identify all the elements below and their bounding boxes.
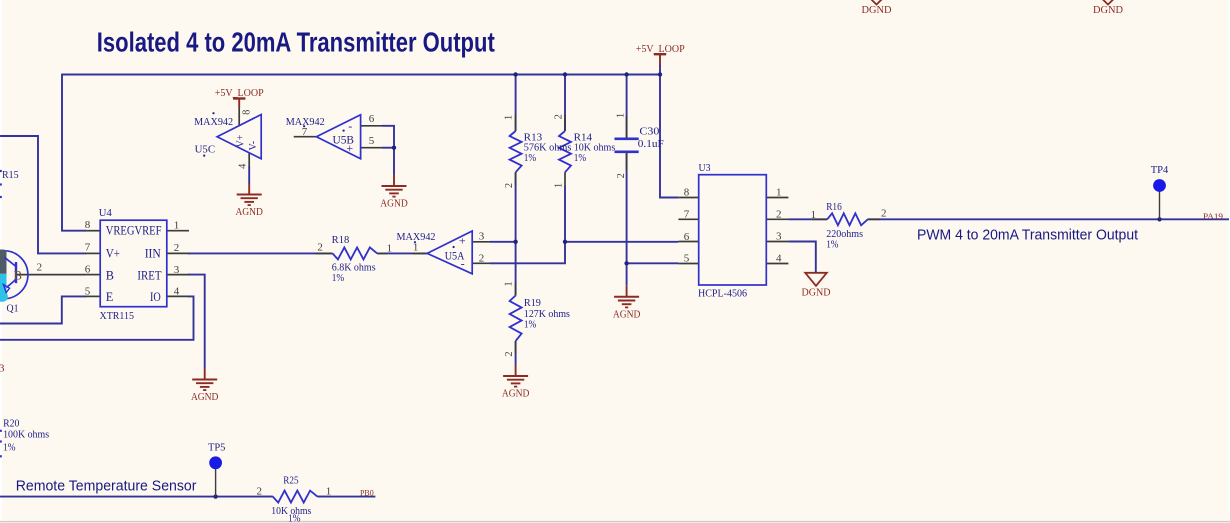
svg-text:IIN: IIN xyxy=(145,247,161,261)
svg-text:R19: R19 xyxy=(524,298,541,309)
svg-text:B: B xyxy=(14,269,22,283)
svg-text:PB0: PB0 xyxy=(360,488,374,497)
svg-text:DGND: DGND xyxy=(862,5,892,16)
svg-text:2: 2 xyxy=(174,242,180,254)
svg-text:TP4: TP4 xyxy=(1151,165,1169,176)
svg-text:4: 4 xyxy=(776,252,782,264)
svg-text:6.8K ohms: 6.8K ohms xyxy=(332,262,376,273)
svg-text:0.1uF: 0.1uF xyxy=(638,139,664,150)
svg-text:2: 2 xyxy=(504,183,515,188)
svg-text:8: 8 xyxy=(85,219,91,231)
svg-text:2: 2 xyxy=(616,173,627,178)
svg-text:TP5: TP5 xyxy=(208,442,226,453)
svg-text:V-: V- xyxy=(248,141,259,151)
svg-text:Isolated 4 to 20mA Transmitter: Isolated 4 to 20mA Transmitter Output xyxy=(97,27,495,58)
svg-text:U5C: U5C xyxy=(195,145,216,156)
svg-text:6: 6 xyxy=(369,113,375,125)
svg-text:-: - xyxy=(461,257,465,271)
svg-text:5: 5 xyxy=(85,285,91,297)
svg-text:3: 3 xyxy=(776,231,782,243)
svg-text:1: 1 xyxy=(503,115,514,120)
svg-text:AGND: AGND xyxy=(613,309,641,320)
svg-text:V+: V+ xyxy=(236,134,247,147)
svg-text:DGND: DGND xyxy=(1093,5,1123,16)
svg-text:7: 7 xyxy=(85,242,91,254)
svg-text:1%: 1% xyxy=(332,273,345,284)
svg-text:1: 1 xyxy=(413,242,419,254)
svg-text:7: 7 xyxy=(684,209,690,221)
svg-text:E: E xyxy=(106,290,114,304)
svg-text:1%: 1% xyxy=(574,153,587,164)
svg-text:XTR115: XTR115 xyxy=(100,311,135,322)
svg-text:8: 8 xyxy=(241,110,252,115)
svg-text:R18: R18 xyxy=(332,235,350,246)
svg-text:2: 2 xyxy=(317,242,323,254)
svg-text:6: 6 xyxy=(85,264,91,276)
svg-text:1: 1 xyxy=(503,281,514,286)
svg-text:1%: 1% xyxy=(3,442,16,453)
svg-text:8: 8 xyxy=(684,187,690,199)
svg-text:2: 2 xyxy=(553,114,564,119)
svg-text:2: 2 xyxy=(776,208,782,220)
svg-text:HCPL-4506: HCPL-4506 xyxy=(698,288,747,299)
svg-text:R15: R15 xyxy=(2,170,19,181)
svg-text:R20: R20 xyxy=(3,419,19,430)
svg-text:+5V_LOOP: +5V_LOOP xyxy=(215,88,264,99)
svg-text:1: 1 xyxy=(387,243,393,255)
svg-text:7: 7 xyxy=(302,126,308,138)
svg-text:1: 1 xyxy=(811,209,817,221)
svg-text:R16: R16 xyxy=(826,202,842,213)
svg-text:DGND: DGND xyxy=(802,288,831,299)
svg-text:2: 2 xyxy=(37,262,43,274)
svg-text:1%: 1% xyxy=(524,320,537,331)
svg-text:AGND: AGND xyxy=(502,389,530,400)
svg-text:AGND: AGND xyxy=(235,207,263,218)
svg-text:Q1: Q1 xyxy=(7,303,19,314)
svg-text:3: 3 xyxy=(0,362,5,374)
svg-text:IO: IO xyxy=(150,290,161,304)
svg-text:PA19: PA19 xyxy=(1203,212,1223,221)
svg-text:6: 6 xyxy=(684,231,690,243)
svg-text:U4: U4 xyxy=(99,208,113,219)
svg-text:1%: 1% xyxy=(288,513,301,523)
svg-text:PWM 4 to 20mA Transmitter Outp: PWM 4 to 20mA Transmitter Output xyxy=(917,227,1138,243)
svg-text:2: 2 xyxy=(479,252,485,264)
svg-text:1: 1 xyxy=(615,113,626,118)
svg-text:4: 4 xyxy=(174,286,180,298)
svg-text:1: 1 xyxy=(326,485,332,497)
svg-text:B: B xyxy=(106,268,114,282)
svg-text:4: 4 xyxy=(237,163,248,169)
svg-text:100K ohms: 100K ohms xyxy=(3,430,49,441)
svg-text:Remote Temperature Sensor: Remote Temperature Sensor xyxy=(16,478,197,494)
svg-text:1: 1 xyxy=(174,220,180,232)
svg-text:2: 2 xyxy=(257,485,263,497)
svg-text:1: 1 xyxy=(776,187,782,199)
svg-text:3: 3 xyxy=(174,264,180,276)
svg-text:+: + xyxy=(346,141,353,155)
svg-text:5: 5 xyxy=(369,135,375,147)
svg-text:3: 3 xyxy=(479,231,485,243)
svg-text:-: - xyxy=(348,119,352,133)
svg-text:1%: 1% xyxy=(826,239,839,250)
svg-text:IRET: IRET xyxy=(137,268,162,282)
svg-text:+5V_LOOP: +5V_LOOP xyxy=(636,44,685,55)
svg-text:R25: R25 xyxy=(283,475,298,486)
svg-text:MAX942: MAX942 xyxy=(194,117,233,128)
svg-text:V+: V+ xyxy=(106,247,120,261)
svg-text:127K ohms: 127K ohms xyxy=(524,309,570,320)
svg-text:1: 1 xyxy=(553,183,564,188)
svg-text:AGND: AGND xyxy=(380,199,408,210)
svg-text:1%: 1% xyxy=(524,153,537,164)
svg-text:2: 2 xyxy=(504,351,515,356)
svg-text:2: 2 xyxy=(881,207,887,219)
svg-text:AGND: AGND xyxy=(191,392,219,403)
svg-text:+: + xyxy=(459,234,466,248)
svg-text:VREGVREF: VREGVREF xyxy=(106,224,162,238)
svg-text:U3: U3 xyxy=(699,163,711,174)
svg-text:5: 5 xyxy=(684,252,690,264)
svg-text:C30: C30 xyxy=(639,126,659,137)
